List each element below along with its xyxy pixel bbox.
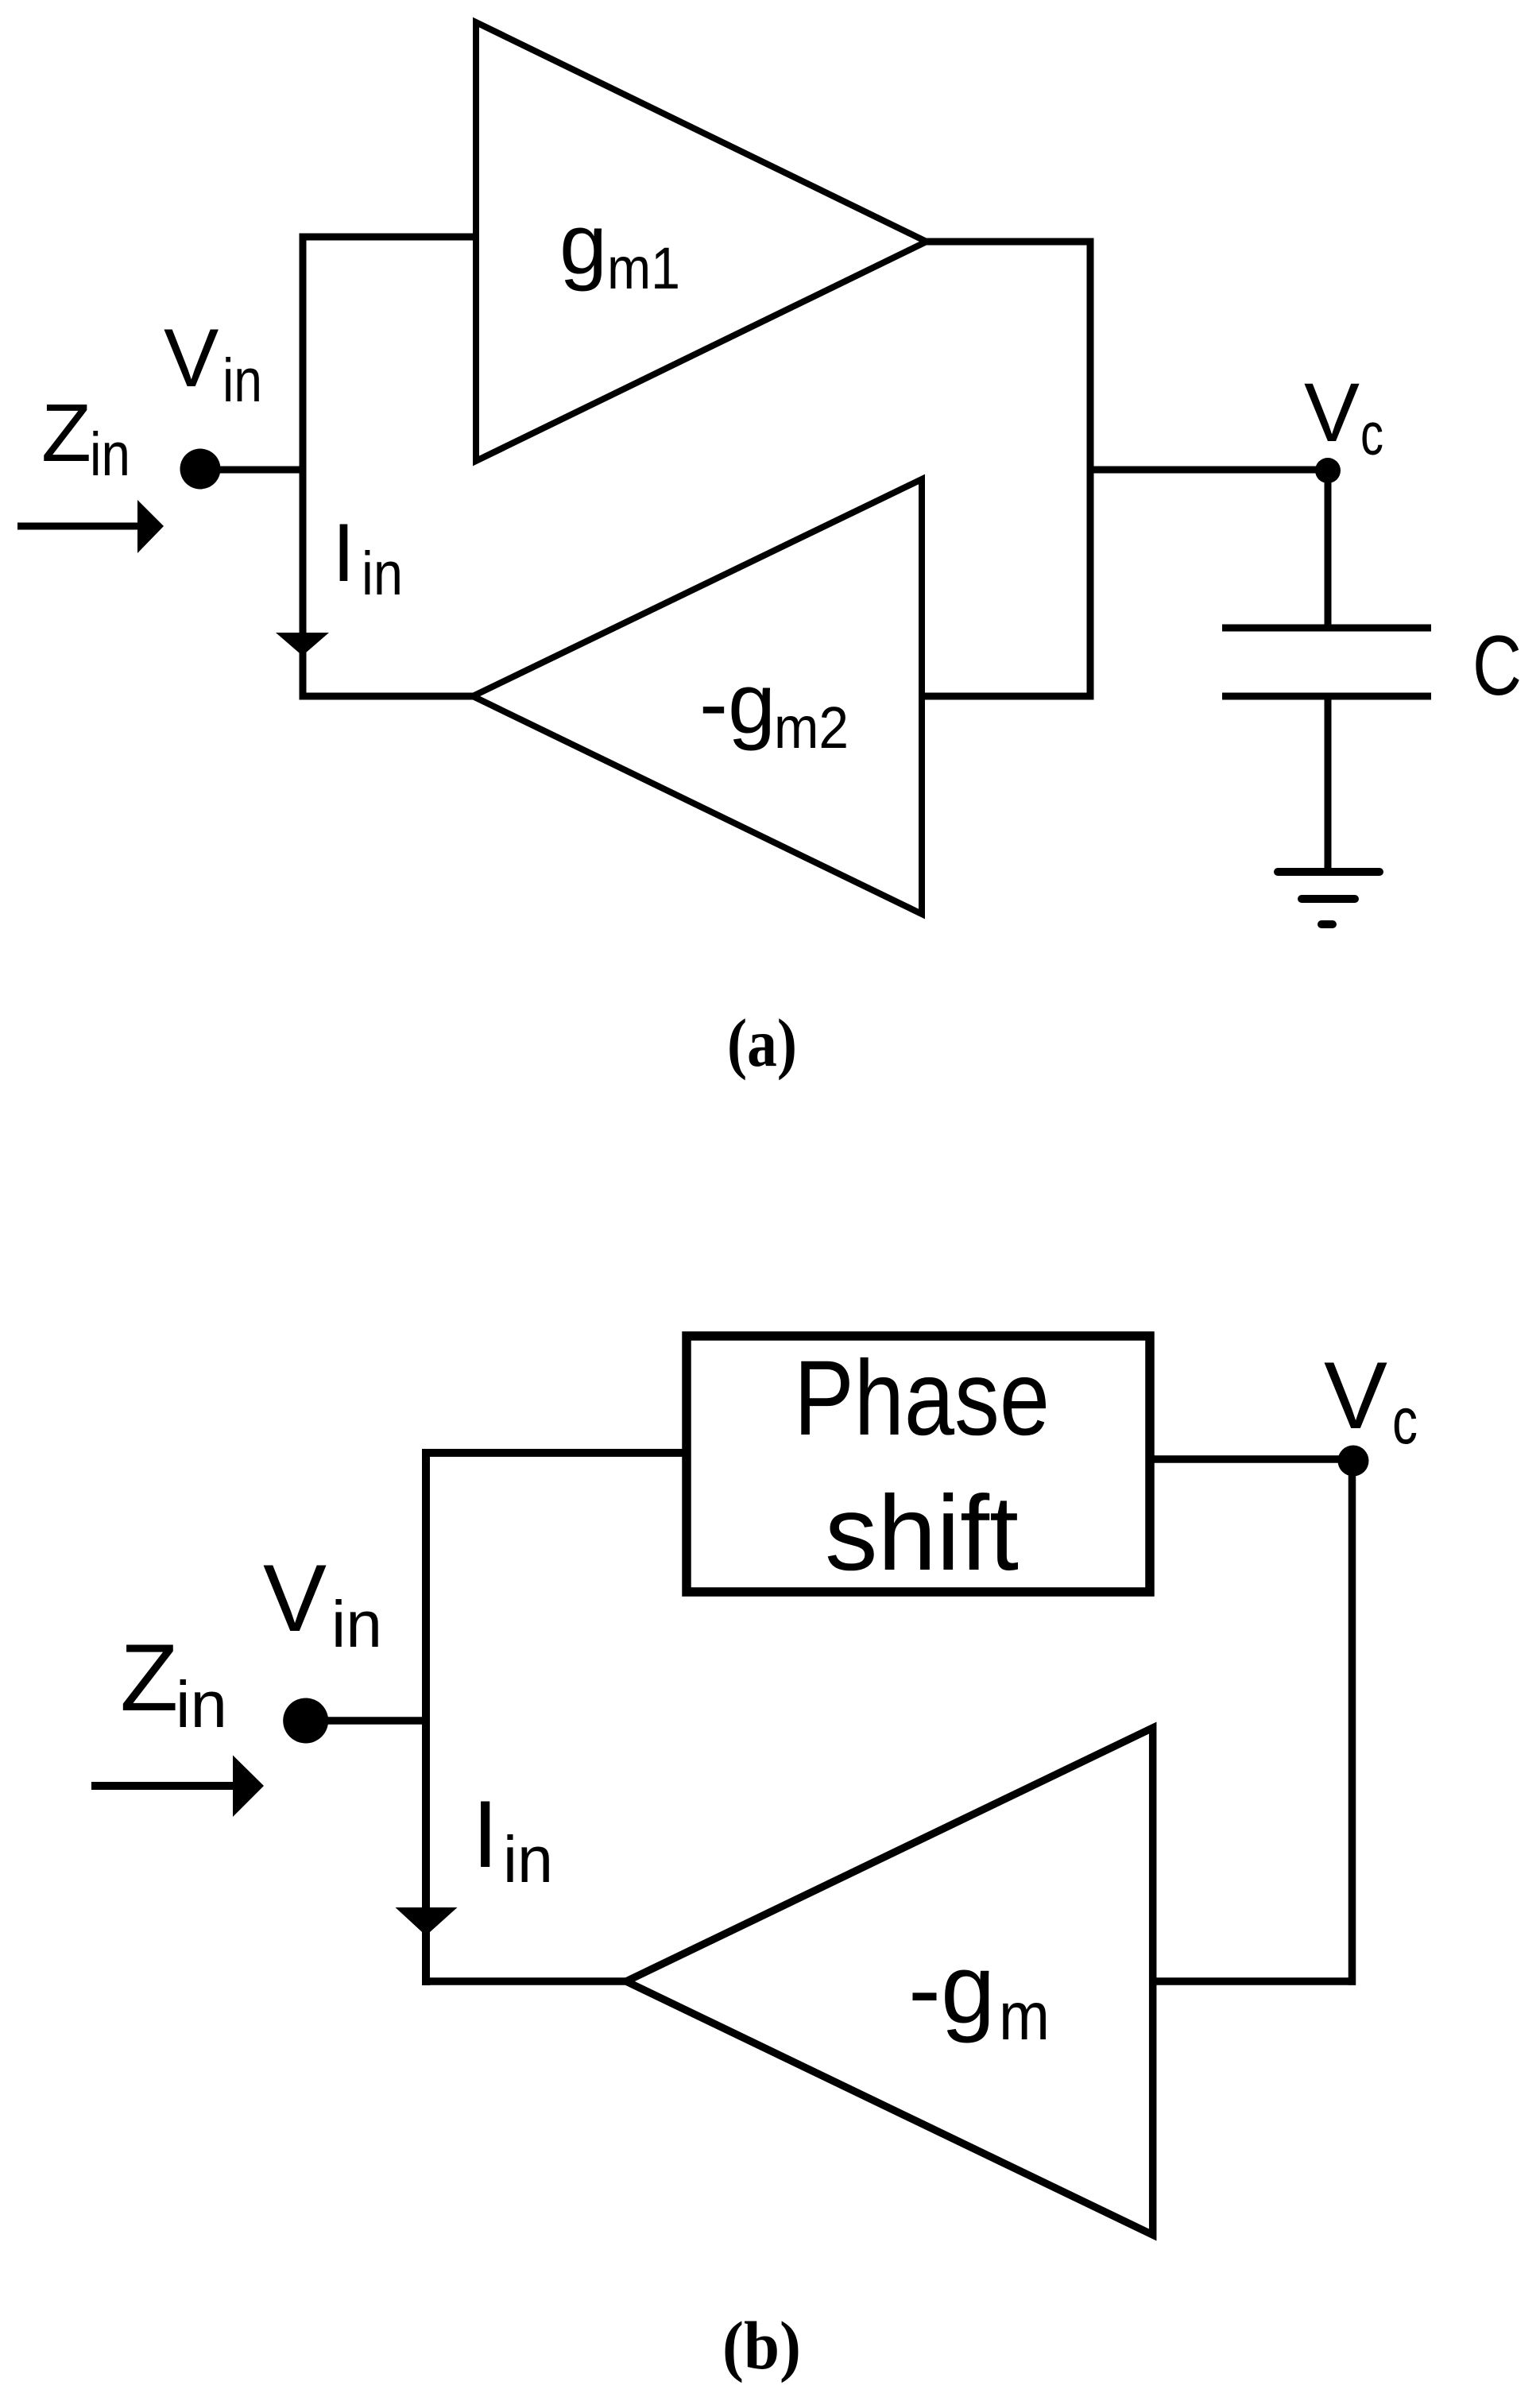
wire: feedback vertical	[1087, 238, 1094, 700]
svg-text:g: g	[559, 196, 607, 292]
svg-text:in: in	[503, 1822, 553, 1896]
wire: junction to Vc node	[1090, 467, 1328, 474]
svg-text:in: in	[176, 1667, 227, 1741]
svg-text:(b): (b)	[722, 2307, 801, 2383]
wire: to -gm2 input	[922, 693, 1090, 700]
arrowhead Iin current direction	[276, 633, 329, 656]
label gm1	[559, 196, 680, 301]
capacitor C bottom lead	[1325, 696, 1332, 872]
ground	[1278, 872, 1379, 924]
wire: node dot to vertical branch	[200, 467, 306, 474]
op-amp gm1	[476, 22, 927, 461]
wire: node dot to vertical branch (b)	[305, 1717, 430, 1725]
svg-text:m: m	[999, 1979, 1050, 2054]
svg-text:m2: m2	[774, 695, 849, 761]
svg-text:(a): (a)	[727, 1005, 797, 1081]
label Phase shift	[794, 1339, 1050, 1593]
label -gm2	[699, 655, 849, 761]
label Zin (b)	[120, 1624, 227, 1741]
node Vc (a)	[1315, 458, 1341, 483]
svg-text:in: in	[331, 1587, 382, 1661]
svg-text:shift: shift	[825, 1474, 1019, 1593]
svg-text:I: I	[472, 1781, 498, 1888]
node Vc (b)	[1338, 1446, 1369, 1477]
svg-text:m1: m1	[607, 235, 680, 301]
svg-text:c: c	[1392, 1384, 1418, 1458]
wire: gm1 output horizontal	[927, 238, 1094, 246]
wire: phase shift box output to Vc node	[1150, 1455, 1353, 1463]
op-amp -gm2	[473, 479, 922, 914]
label -gm	[908, 1935, 1050, 2054]
node Vin (a)	[180, 449, 221, 490]
arrow Zin (a)	[17, 500, 164, 553]
svg-text:V: V	[1304, 366, 1360, 459]
wire: top horizontal to phase shift box	[422, 1449, 687, 1457]
svg-text:I: I	[332, 507, 355, 599]
svg-text:V: V	[263, 1545, 327, 1652]
svg-text:-g: -g	[699, 655, 776, 751]
svg-text:in: in	[222, 347, 262, 415]
svg-text:c: c	[1360, 401, 1383, 467]
wire: input vertical branch (b)	[422, 1449, 430, 1985]
label Vin (b)	[263, 1545, 382, 1661]
svg-text:Z: Z	[41, 387, 91, 478]
wire: input node up to gm1 input (vertical branch)	[300, 234, 307, 700]
node Vin (b)	[283, 1698, 328, 1744]
svg-text:Phase: Phase	[794, 1339, 1050, 1458]
capacitor C top lead	[1325, 470, 1332, 628]
phase shift box	[687, 1336, 1150, 1592]
wire: bottom to -gm input	[1153, 1977, 1356, 1985]
wire: Vc vertical down (b)	[1348, 1461, 1356, 1985]
svg-text:V: V	[164, 312, 219, 405]
label Vin (a)	[164, 312, 262, 415]
label Vc (b)	[1324, 1342, 1418, 1458]
svg-text:Z: Z	[120, 1624, 178, 1731]
label Zin (a)	[41, 387, 130, 489]
svg-text:-g: -g	[908, 1935, 995, 2044]
wire: top horizontal to gm1 input	[300, 234, 477, 241]
op-amp -gm	[626, 1728, 1153, 2235]
label Iin (b)	[472, 1781, 553, 1896]
capacitor C plates	[1222, 628, 1431, 696]
svg-text:C: C	[1472, 618, 1522, 713]
label Iin (a)	[332, 507, 403, 608]
svg-text:in: in	[90, 420, 130, 489]
label Vc (a)	[1304, 366, 1383, 467]
svg-text:V: V	[1324, 1342, 1387, 1449]
arrow Zin (b)	[91, 1756, 264, 1818]
wire: bottom horizontal to -gm2 output tip	[300, 693, 474, 700]
wire: bottom horizontal to -gm output tip	[422, 1977, 626, 1985]
svg-text:in: in	[362, 540, 403, 608]
arrowhead Iin current direction (b)	[396, 1907, 458, 1936]
